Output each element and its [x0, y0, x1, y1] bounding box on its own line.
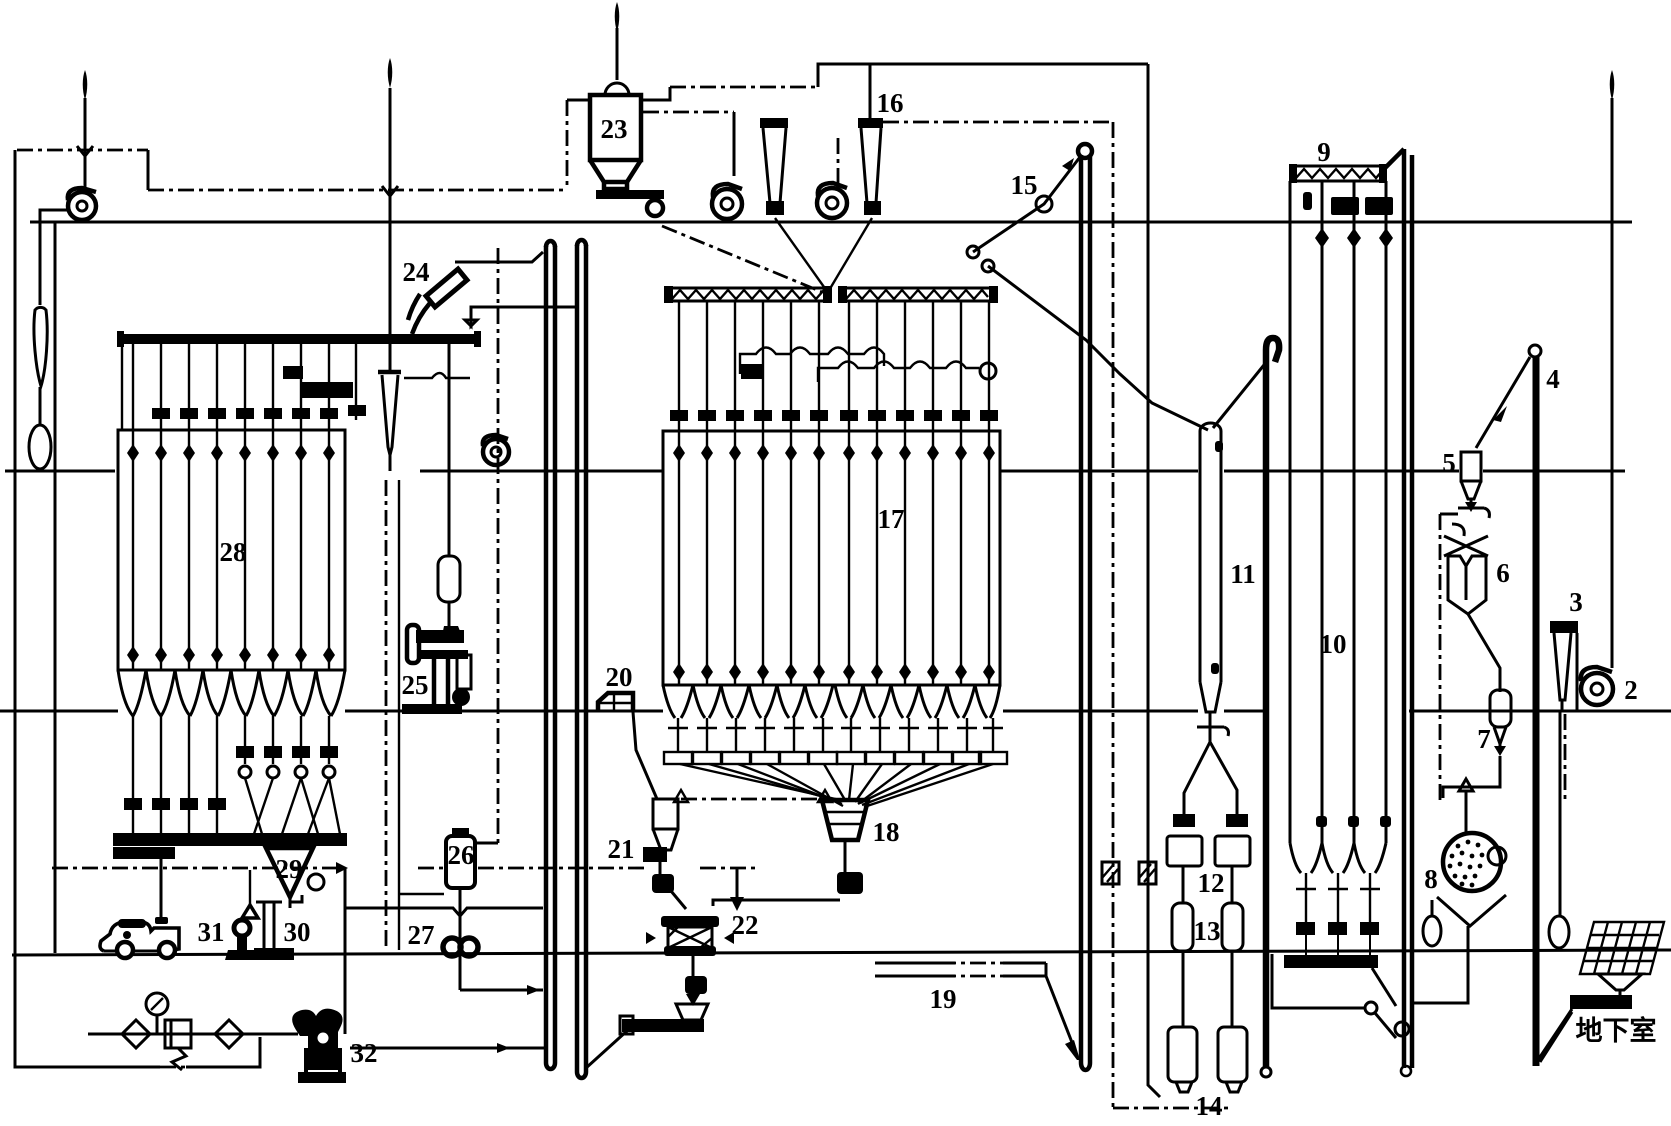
svg-text:5: 5 [1442, 448, 1456, 478]
svg-text:9: 9 [1317, 137, 1331, 167]
fan F2 [817, 183, 847, 218]
channel nodes 28 lower [127, 646, 335, 664]
hopper 29 [266, 848, 324, 908]
duct from fan F0 [40, 210, 68, 305]
pipe diamonds below floor1 [1315, 228, 1393, 248]
splitter pants [1184, 742, 1237, 818]
pants blobs [1173, 814, 1195, 827]
duct fan F2 up [837, 138, 840, 186]
svg-text:25: 25 [402, 670, 429, 700]
svg-text:10: 10 [1320, 629, 1347, 659]
svg-text:7: 7 [1477, 724, 1491, 754]
chute diagonal 16 [831, 218, 872, 287]
funnels 17 [663, 685, 1000, 718]
exhaust arrow right [1610, 70, 1615, 668]
pipe fittings top [1303, 192, 1312, 210]
chute diagonal A [775, 218, 824, 287]
vertical duct dash [1112, 122, 1115, 1108]
pipe 7 down [1443, 756, 1500, 798]
svg-text:4: 4 [1546, 364, 1560, 394]
svg-text:17: 17 [878, 504, 905, 534]
cyclone 3 [1550, 621, 1578, 711]
line 19 duct [875, 958, 1080, 1060]
wavy upper segment [740, 348, 884, 375]
svg-text:23: 23 [601, 114, 628, 144]
svg-text:16: 16 [877, 88, 904, 118]
airlock square 2 [1139, 862, 1156, 884]
pipe assembly 30 [254, 895, 302, 960]
cyclone A blob [766, 201, 784, 215]
hopper 18 [822, 800, 868, 894]
bag right [1549, 916, 1569, 948]
fan F3 [483, 435, 509, 465]
inclined line 4 [1476, 345, 1541, 1066]
bypass elbow [1440, 513, 1458, 516]
oval separator [29, 425, 51, 469]
collect diagonals 17 [680, 764, 993, 807]
blow line 1 [460, 985, 543, 995]
svg-text:31: 31 [198, 917, 225, 947]
device 20 [598, 693, 633, 712]
pipe 24 to elevator [455, 252, 543, 262]
dash-dot level line left [52, 867, 345, 870]
rollers 27 [443, 938, 478, 956]
valve below 11 [1197, 712, 1229, 742]
column 11 dots [1215, 441, 1223, 452]
svg-text:30: 30 [284, 917, 311, 947]
svg-text:28: 28 [220, 537, 247, 567]
svg-text:20: 20 [606, 662, 633, 692]
drop pipe [398, 480, 400, 950]
elevator leg 1 [546, 241, 555, 1069]
pipe mid to elevator [465, 307, 575, 326]
conveyor bar 28 [113, 833, 347, 846]
pipe 23 left [567, 99, 590, 102]
truss 17 left [664, 286, 832, 303]
cyclone 16 blob [864, 201, 881, 215]
svg-text:地下室: 地下室 [1576, 1015, 1657, 1046]
separator 6 [1444, 524, 1488, 614]
dash-dot level stub [700, 867, 760, 870]
boot diagonal wall 4 [1540, 1012, 1572, 1062]
discharge 8 [1412, 926, 1468, 1003]
chevron under 8 [1437, 895, 1506, 926]
receiving cup [676, 953, 708, 1020]
pipe 23 right top [641, 87, 670, 100]
basement chute [1538, 1009, 1572, 1060]
truss 17 right [838, 286, 998, 303]
filter diamond 2 [215, 1020, 243, 1048]
capsules 13 [1172, 903, 1193, 951]
floor line level 1 [30, 221, 1632, 224]
channel nodes 28 upper [127, 444, 335, 462]
shaft 10 conveyor [1284, 955, 1378, 968]
left drop pipe [54, 222, 57, 953]
cyclone A cone [763, 128, 786, 203]
feed triangle 8 [1459, 779, 1473, 791]
wavy jog [404, 373, 470, 378]
cyclone 23 body [590, 95, 641, 189]
boot conveyor [620, 1016, 704, 1034]
airlock square 1 [1102, 862, 1119, 884]
floor line level 3 [0, 710, 1671, 713]
svg-text:11: 11 [1230, 559, 1256, 589]
svg-text:13: 13 [1194, 916, 1221, 946]
conveyor second bar [113, 847, 175, 859]
line to 18 drain [713, 900, 840, 906]
balance circle [980, 363, 996, 379]
pipe 20 down to 21 [633, 712, 657, 799]
drop pipes 17 [679, 301, 989, 430]
fan F0 [68, 188, 96, 220]
bottom dash line [160, 1066, 186, 1069]
dashed bypass [1439, 514, 1442, 800]
drop lines 13-14 [1182, 951, 1185, 1027]
pipe 26 down [459, 888, 462, 990]
swivel circles 28 [239, 766, 340, 834]
left border wall [15, 150, 160, 1067]
drop from dash line [344, 868, 347, 1034]
necks [1182, 866, 1185, 903]
cyclone 16 cone [861, 128, 881, 203]
truck [100, 919, 179, 958]
wire up [818, 64, 1148, 87]
intake grate [1580, 922, 1664, 974]
svg-text:3: 3 [1569, 587, 1583, 617]
channels 28 [133, 430, 329, 670]
svg-text:24: 24 [403, 257, 430, 287]
vessel 7 [1490, 690, 1511, 756]
cyclone 5 [1461, 452, 1481, 512]
cyclone 23 discharge plate [596, 190, 664, 199]
dash pipe down [566, 100, 569, 190]
jack 31 [225, 870, 261, 960]
cyclone B cone [382, 375, 398, 455]
svg-text:29: 29 [276, 854, 303, 884]
feed pipe to capsule [448, 344, 451, 556]
elevator head slant [1385, 149, 1404, 168]
sifter box 28 [118, 430, 345, 670]
pipe [448, 602, 451, 630]
compressor 32 [292, 1009, 346, 1083]
intake funnel [1598, 974, 1642, 996]
svg-text:12: 12 [1198, 868, 1225, 898]
svg-text:14: 14 [1196, 1091, 1223, 1121]
support triangles [674, 790, 688, 802]
bag left [1423, 900, 1441, 946]
svg-text:18: 18 [873, 817, 900, 847]
purifier 22 [646, 916, 734, 956]
capsule hopper [438, 556, 460, 602]
spout to bag right [1559, 711, 1562, 917]
wall of shaft 10 left [1213, 338, 1279, 1077]
chute dash diagonal from 23 [662, 226, 822, 292]
drum sieve 8 [1443, 833, 1506, 891]
svg-text:2: 2 [1624, 675, 1638, 705]
fan F1 [712, 184, 742, 219]
roller under 23 [647, 200, 663, 216]
intake conveyor [1570, 995, 1632, 1009]
dash-dot duct to cyclone 23 [148, 189, 567, 192]
funnel valves and gates 17 [664, 718, 1007, 764]
funnels 28 [118, 670, 345, 716]
pipe [39, 387, 42, 426]
floor line level 2 [5, 470, 1625, 473]
sifter box 17 [663, 431, 1000, 685]
shaft 10 funnels [1290, 843, 1386, 873]
head pulley [1078, 144, 1092, 158]
cyclone 23 outlet dash-dot [643, 111, 734, 114]
cyclone A cap [760, 118, 788, 128]
top dash-dot duct left [17, 149, 148, 152]
elevator leg 2 [577, 240, 586, 1078]
funnel valves shaft 10 [1296, 873, 1380, 922]
channels 17 [679, 431, 989, 685]
svg-text:26: 26 [448, 840, 475, 870]
svg-text:6: 6 [1496, 558, 1510, 588]
svg-text:22: 22 [732, 910, 759, 940]
exhaust arrow 24 stack [382, 58, 398, 334]
scale boxes 12 [1167, 836, 1202, 866]
unit 28 manifold [120, 334, 478, 344]
air prep line [88, 1033, 298, 1036]
vertical duct [1148, 64, 1160, 1097]
svg-text:21: 21 [608, 834, 635, 864]
throttle valve 24 [408, 269, 467, 334]
svg-text:32: 32 [351, 1038, 378, 1068]
gate blobs shaft 10 [1296, 922, 1379, 955]
elevator 3 [1081, 155, 1090, 1070]
pipe 16 up [869, 64, 872, 118]
filter diamond 1 [122, 1020, 150, 1048]
gauge [146, 993, 168, 1034]
damper blobs above 28 [283, 366, 353, 398]
teardrop separator [34, 307, 47, 386]
cyclone 16 cap [858, 118, 883, 128]
pipe connector blobs 17 [670, 410, 998, 421]
dashed drop pipe [385, 480, 388, 950]
cyclone B top bar [378, 370, 401, 375]
dash-dot duct 16 [883, 121, 1113, 124]
capsules 14 [1168, 1027, 1247, 1092]
sack gates blobs 28 [124, 746, 338, 810]
pipe 6 to 7 [1468, 614, 1500, 692]
blow line 2 [350, 1043, 545, 1053]
floor line level 4 [12, 950, 1671, 955]
svg-text:27: 27 [408, 920, 435, 950]
wire corner [147, 150, 150, 190]
truck feed pipe [155, 859, 168, 924]
junction line [345, 908, 543, 916]
manifold end caps [117, 331, 124, 347]
cyclone 23 dome [605, 83, 629, 95]
channel nodes 17 upper [673, 444, 995, 462]
column 11 body [1200, 423, 1221, 712]
valve under 5 [1458, 508, 1489, 518]
pipe connector blobs row 28 [152, 405, 366, 419]
svg-text:8: 8 [1424, 864, 1438, 894]
duct down to fan F1 [733, 112, 736, 176]
dash drop right of fan2 [1564, 714, 1567, 800]
fan 2 [1581, 667, 1613, 705]
svg-text:19: 19 [930, 984, 957, 1014]
svg-text:15: 15 [1011, 170, 1038, 200]
dash-dot level line mid [418, 867, 648, 870]
exhaust arrow 23 [615, 2, 620, 80]
unit 28 drop pipes [122, 344, 356, 430]
boot lines left wall [1272, 954, 1396, 1038]
pipe dots lower [1316, 816, 1391, 827]
cyclone 21 [643, 799, 686, 909]
dust line to 22 [730, 868, 744, 911]
funnel drop pipes 28 [133, 716, 329, 834]
boot chute [586, 1030, 628, 1068]
shaft 10 pipes [1290, 181, 1386, 843]
dash-dot duct [670, 86, 818, 89]
damper blob 17 [741, 364, 763, 379]
regulator [165, 1020, 191, 1070]
truss 9 [1289, 164, 1387, 183]
vessel 26 [452, 828, 469, 838]
cyclone B stem [389, 453, 392, 471]
wavy balance line 17 [818, 362, 979, 383]
wall shaft 10 right / elevator 4 [1401, 149, 1412, 1076]
incline 15 [967, 157, 1208, 430]
mill 25 [402, 625, 471, 714]
channel nodes 17 lower [673, 663, 995, 681]
exhaust arrow 1 [77, 70, 93, 188]
support dash line [681, 798, 818, 801]
dash-dot pipe [497, 248, 500, 843]
